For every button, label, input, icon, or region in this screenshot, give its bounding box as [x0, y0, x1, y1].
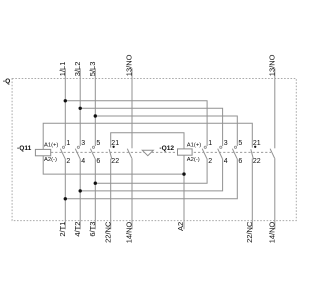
junction node T2 — [79, 189, 82, 192]
wire 13/NO Q12 top lead — [274, 68, 276, 148]
svg-text:5: 5 — [238, 140, 242, 147]
mechanism dashed linkage line — [51, 151, 271, 153]
svg-text:1: 1 — [66, 140, 70, 147]
contactor Q11 coil — [35, 149, 50, 155]
wire Q12 coil A2 to terminal A2 — [183, 155, 185, 229]
svg-text:1/L1: 1/L1 — [58, 62, 67, 77]
svg-text:4: 4 — [224, 158, 228, 165]
svg-text:14/NO: 14/NO — [267, 221, 276, 243]
contact Q12 NO aux 13-14 — [270, 149, 275, 159]
wire L1 to Q12 pole 1 — [65, 101, 207, 146]
wire Q11 contact 21 to Q12 coil A1 (interlock) — [111, 133, 184, 149]
wire 13/NO Q11 top lead — [131, 68, 133, 148]
svg-text:-Q11: -Q11 — [17, 145, 32, 152]
svg-text:6: 6 — [96, 158, 100, 165]
svg-text:A1(+): A1(+) — [44, 142, 58, 148]
svg-text:A1(+): A1(+) — [187, 142, 201, 148]
wire 2/T1 bottom lead — [64, 159, 66, 230]
svg-text:A2(-): A2(-) — [187, 157, 200, 163]
svg-text:3/L2: 3/L2 — [73, 62, 82, 77]
wire L3 to Q12 pole 5 — [95, 116, 237, 146]
wire 14/NO Q12 bottom lead — [274, 158, 276, 229]
contact Q11 pole 1-2 — [60, 146, 65, 159]
enclosure dashed border -Q — [12, 79, 296, 221]
contact Q12 pole 1-2 — [202, 146, 207, 159]
wire 4/T2 bottom lead — [79, 159, 81, 230]
junction node L1 tap — [64, 99, 67, 102]
wire 3/L2 top lead — [79, 68, 81, 146]
junction node A2 common — [182, 172, 185, 175]
svg-text:2: 2 — [66, 158, 70, 165]
wire Q11 coil A2 to node A2 — [43, 156, 184, 174]
contact Q11 NO aux 13-14 — [127, 149, 132, 159]
wire 1/L1 top lead — [64, 68, 66, 146]
contact Q12 pole 5-6 — [232, 146, 237, 159]
svg-text:22/NC: 22/NC — [103, 221, 112, 243]
svg-text:2: 2 — [208, 158, 212, 165]
contact Q11 NC aux 21-22 — [109, 146, 115, 159]
svg-text:6: 6 — [238, 158, 242, 165]
svg-text:-Q12: -Q12 — [159, 145, 174, 152]
mechanical interlock triangle — [142, 150, 153, 155]
junction node T1 — [64, 197, 67, 200]
svg-text:3: 3 — [81, 140, 85, 147]
svg-text:4: 4 — [81, 158, 85, 165]
junction node L2 tap — [79, 107, 82, 110]
svg-text:A2(-): A2(-) — [44, 157, 57, 163]
contact Q11 pole 5-6 — [90, 146, 95, 159]
svg-text:6/T3: 6/T3 — [88, 222, 97, 237]
svg-text:22: 22 — [111, 158, 119, 165]
wire 5/L3 top lead — [94, 68, 96, 146]
wire Q12 terminal 6 to 2/T1 — [65, 159, 237, 199]
svg-text:21: 21 — [253, 140, 261, 147]
svg-text:22: 22 — [253, 158, 261, 165]
svg-text:14/NO: 14/NO — [125, 221, 134, 243]
wire Q12 terminal 4 to 4/T2 — [80, 159, 222, 191]
svg-text:A2: A2 — [176, 222, 185, 231]
svg-text:5: 5 — [96, 140, 100, 147]
svg-text:22/NC: 22/NC — [245, 221, 254, 243]
svg-text:3: 3 — [224, 140, 228, 147]
wire 6/T3 bottom lead — [94, 159, 96, 230]
svg-text:5/L3: 5/L3 — [88, 62, 97, 77]
contact Q11 pole 3-4 — [75, 146, 80, 159]
wire 14/NO Q11 bottom lead — [131, 158, 133, 229]
contactor Q12 coil — [178, 149, 193, 155]
wire 22/NC Q11 bottom lead — [110, 159, 112, 230]
wire Q12 terminal 2 to 6/T3 — [95, 159, 207, 184]
svg-text:4/T2: 4/T2 — [73, 222, 82, 237]
svg-text:13/NO: 13/NO — [267, 54, 276, 76]
wire Q11 coil A1 to Q12 contact 21 (interlock) — [43, 123, 252, 149]
svg-text:2/T1: 2/T1 — [58, 222, 67, 237]
contact Q12 NC aux 21-22 — [251, 146, 257, 159]
svg-text:21: 21 — [111, 140, 119, 147]
junction node T3 — [94, 182, 97, 185]
junction node L3 tap — [94, 114, 97, 117]
contact Q12 pole 3-4 — [218, 146, 223, 159]
wire 22/NC Q12 bottom lead — [251, 159, 253, 230]
svg-text:13/NO: 13/NO — [125, 54, 134, 76]
wire L2 to Q12 pole 3 — [80, 108, 222, 146]
svg-text:-Q: -Q — [3, 78, 10, 85]
svg-text:1: 1 — [208, 140, 212, 147]
